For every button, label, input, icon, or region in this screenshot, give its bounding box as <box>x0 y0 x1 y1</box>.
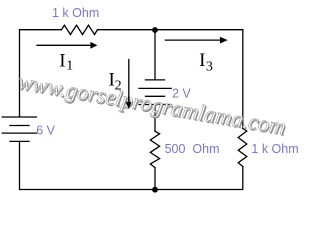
svg-text:3: 3 <box>206 59 213 74</box>
svg-text:I: I <box>59 51 65 72</box>
svg-text:500 Ohm: 500 Ohm <box>165 142 220 156</box>
svg-text:1 k Ohm: 1 k Ohm <box>52 6 99 20</box>
svg-text:1: 1 <box>66 58 73 73</box>
svg-text:I: I <box>199 50 205 71</box>
svg-text:6 V: 6 V <box>36 124 55 138</box>
svg-text:1 k Ohm: 1 k Ohm <box>251 142 298 156</box>
